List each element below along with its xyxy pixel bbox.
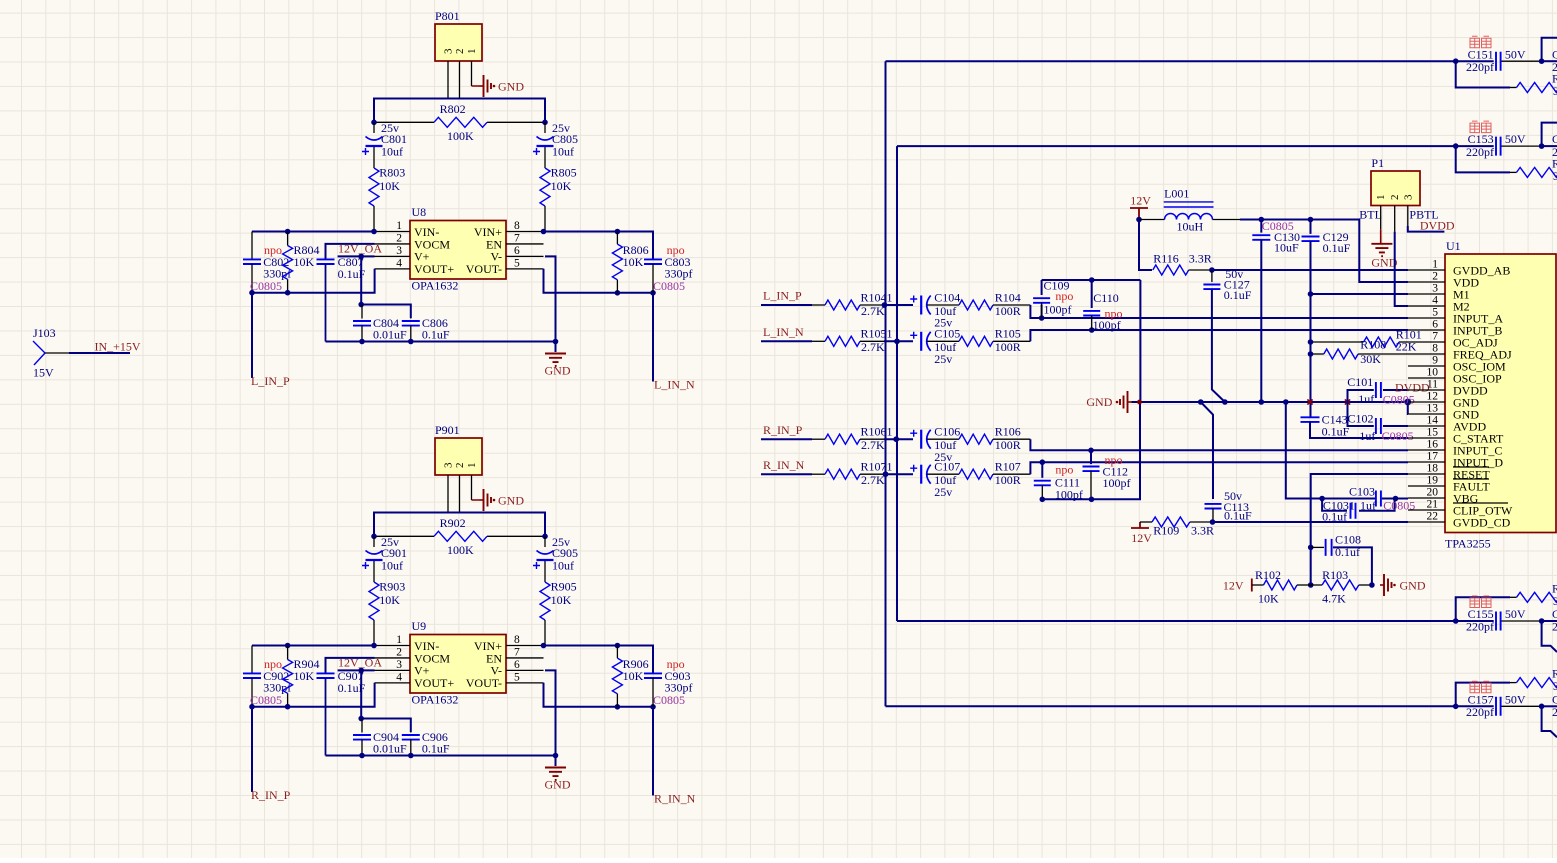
svg-text:VOUT-: VOUT- [466, 676, 502, 690]
svg-text:10K: 10K [623, 255, 644, 269]
capacitor C907 [326, 658, 375, 673]
U8 pin 3 [375, 255, 411, 257]
svg-text:2.7K: 2.7K [861, 473, 885, 487]
svg-text:C0805: C0805 [1382, 429, 1414, 443]
svg-text:6: 6 [1432, 319, 1438, 331]
svg-text:10K: 10K [379, 593, 400, 607]
wire pin1 row [252, 645, 375, 647]
power ground GND [480, 499, 484, 501]
op-amp U8 [410, 221, 506, 280]
resistor R806 [616, 232, 618, 245]
junction [893, 436, 899, 442]
svg-text:1uf: 1uf [1360, 498, 1376, 512]
junction [285, 229, 291, 235]
resistor R904 [287, 646, 289, 660]
wire VBG [1286, 402, 1375, 499]
wire [374, 513, 545, 537]
junction [1453, 704, 1459, 710]
junction [358, 302, 364, 308]
wire cap rail top [361, 719, 411, 733]
wire output net [886, 705, 1456, 707]
resistor R804 [287, 232, 289, 246]
svg-text:R1071: R1071 [861, 460, 893, 474]
U8 pin 4 [375, 268, 411, 270]
connector J103 [33, 341, 45, 365]
wire cap rail [1041, 305, 1043, 319]
resistor R106 [927, 438, 959, 440]
resistor R105 [927, 340, 959, 342]
svg-text:R105: R105 [995, 327, 1021, 341]
power 12V [1251, 579, 1253, 592]
svg-text:R_IN_P: R_IN_P [763, 423, 803, 437]
wire output net [897, 620, 1456, 622]
svg-text:VOUT-: VOUT- [466, 262, 502, 276]
svg-text:8: 8 [514, 634, 520, 646]
junction [285, 643, 291, 649]
connector P1 [1371, 171, 1420, 206]
junction [1088, 448, 1094, 454]
svg-text:R1051: R1051 [861, 327, 893, 341]
svg-text:2: 2 [1552, 620, 1557, 634]
svg-text:P901: P901 [435, 423, 460, 437]
svg-text:OPA1632: OPA1632 [412, 693, 459, 707]
svg-text:50V: 50V [1505, 607, 1526, 621]
svg-text:220pf: 220pf [1466, 620, 1494, 634]
U1 pin 16 INPUT_C [1408, 449, 1445, 451]
U8 pin 2 [375, 243, 411, 245]
overbar CLIP_OTW [1453, 502, 1508, 504]
capacitor C153 [1456, 145, 1494, 147]
film label [1470, 36, 1480, 48]
svg-text:12V: 12V [1130, 194, 1151, 208]
svg-text:3: 3 [443, 48, 455, 54]
capacitor C104 [910, 296, 917, 303]
svg-text:IN_+15V: IN_+15V [95, 340, 141, 354]
svg-text:C0805: C0805 [1383, 392, 1415, 406]
svg-text:R1061: R1061 [861, 425, 893, 439]
svg-text:14: 14 [1427, 415, 1439, 427]
junction [1209, 267, 1215, 273]
svg-text:3: 3 [396, 659, 402, 671]
wire [884, 473, 913, 475]
U9 pin 2 [375, 657, 411, 659]
svg-text:R1041: R1041 [861, 290, 893, 304]
svg-text:R905: R905 [551, 580, 577, 594]
svg-text:R_IN_P: R_IN_P [251, 788, 291, 802]
svg-text:5: 5 [514, 671, 520, 683]
svg-text:100K: 100K [447, 543, 474, 557]
junction [1539, 618, 1545, 624]
svg-text:5: 5 [514, 257, 520, 269]
svg-text:6: 6 [514, 659, 520, 671]
svg-text:R_IN_N: R_IN_N [654, 792, 696, 806]
svg-text:19: 19 [1427, 475, 1439, 487]
svg-text:1uf: 1uf [1359, 429, 1375, 443]
svg-text:GND: GND [545, 364, 571, 378]
wire VOUT- row [544, 683, 654, 707]
junction [358, 716, 364, 722]
junction [615, 643, 621, 649]
resistor R101 [1311, 341, 1364, 343]
junction [615, 704, 621, 710]
svg-text:R802: R802 [440, 102, 466, 116]
svg-text:GND: GND [1086, 395, 1112, 409]
U9 pin 5 [506, 682, 544, 684]
junction [1210, 519, 1216, 525]
wire net OUT_A vertical [885, 61, 887, 706]
svg-text:C0805: C0805 [653, 279, 685, 293]
svg-text:7: 7 [514, 232, 520, 244]
svg-text:100R: 100R [995, 438, 1021, 452]
wire to edge [1542, 60, 1557, 62]
wire GND rail [1132, 401, 1408, 403]
svg-text:1: 1 [396, 220, 402, 232]
wire C109/C110 rail [1042, 279, 1141, 281]
ground GND [545, 354, 566, 366]
U8 pin 6 [506, 255, 544, 257]
film label [1470, 596, 1480, 608]
P1 pin2 wire [1394, 206, 1396, 232]
U1 pin 19 FAULT [1408, 485, 1445, 487]
svg-text:8: 8 [514, 220, 520, 232]
junction [1453, 58, 1459, 64]
junction [359, 753, 365, 759]
svg-text:1: 1 [466, 49, 478, 55]
capacitor C105 [910, 332, 917, 339]
svg-text:10uf: 10uf [552, 145, 574, 159]
net 12V_OA [338, 255, 375, 257]
svg-text:0.01uF: 0.01uF [373, 742, 407, 756]
junction [1039, 315, 1045, 321]
wire GVDD_AB [1212, 269, 1408, 271]
svg-text:10: 10 [1427, 367, 1439, 379]
wire VOUT- row [544, 269, 654, 293]
svg-text:3: 3 [1553, 84, 1557, 98]
svg-text:L_IN_P: L_IN_P [251, 374, 290, 388]
svg-text:J103: J103 [33, 326, 56, 340]
svg-text:20: 20 [1427, 487, 1439, 499]
resistor R905 [540, 582, 550, 620]
resistor R1071 [812, 473, 825, 475]
U1 pin 14 AVDD [1408, 425, 1445, 427]
capacitor C108 [1326, 539, 1332, 556]
svg-text:GND: GND [1400, 578, 1426, 592]
svg-text:50V: 50V [1505, 47, 1526, 61]
svg-text:P801: P801 [435, 9, 460, 23]
wire output net [886, 60, 1456, 62]
svg-text:4: 4 [396, 671, 402, 683]
U1 pin 13 GND [1408, 413, 1445, 415]
svg-text:C103: C103 [1349, 484, 1375, 498]
P1 pin3 wire [1407, 206, 1409, 227]
wire V+ decouple [360, 670, 362, 718]
svg-text:1: 1 [466, 463, 478, 469]
resistor R906 [616, 646, 618, 659]
capacitor C902 [251, 646, 253, 674]
wire V- to gnd [545, 670, 556, 766]
capacitor C155 [1456, 620, 1494, 622]
op-amp U9 [410, 635, 506, 694]
junction [1453, 618, 1459, 624]
svg-text:R903: R903 [379, 580, 405, 594]
svg-text:15: 15 [1427, 427, 1439, 439]
svg-text:R803: R803 [379, 166, 405, 180]
svg-text:U8: U8 [412, 205, 427, 219]
svg-text:C102: C102 [1348, 411, 1374, 425]
U1 pin 8 FREQ_ADJ [1408, 353, 1445, 355]
U9 pin 1 [375, 645, 411, 647]
svg-text:10uf: 10uf [381, 145, 403, 159]
wire INPUT_D [1030, 462, 1408, 474]
wire pin8 row [544, 232, 654, 260]
resistor R108 [1311, 353, 1324, 355]
svg-text:3.3R: 3.3R [1191, 524, 1214, 538]
wire to edge [1542, 620, 1557, 622]
svg-text:U1: U1 [1446, 239, 1461, 253]
net R_IN_P wire [251, 707, 253, 792]
svg-text:C0805: C0805 [653, 693, 685, 707]
U1 pin 22 GVDD_CD [1408, 521, 1445, 523]
svg-text:C0805: C0805 [250, 279, 282, 293]
resistor R1051 [812, 340, 825, 342]
junction [1040, 459, 1046, 465]
svg-text:BTL: BTL [1359, 208, 1382, 222]
svg-text:P1: P1 [1371, 156, 1384, 170]
U1 pin 10 OSC_IOP [1408, 377, 1445, 379]
junction [1453, 143, 1459, 149]
svg-text:10K: 10K [551, 179, 572, 193]
svg-text:VOUT+: VOUT+ [414, 676, 454, 690]
svg-text:GND: GND [498, 80, 524, 94]
capacitor C807 [326, 244, 375, 259]
wire to edge [1542, 705, 1557, 707]
svg-text:0.1uf: 0.1uf [1335, 545, 1360, 559]
svg-text:25v: 25v [934, 485, 952, 499]
wire cap rail bottom [326, 341, 556, 343]
wire stub [1456, 597, 1510, 621]
svg-text:2.7K: 2.7K [861, 340, 885, 354]
P801 pin wires [447, 61, 449, 99]
wire GVDD_CD [1211, 521, 1408, 523]
junction [1369, 582, 1375, 588]
film label [1470, 681, 1480, 693]
svg-text:4.7K: 4.7K [1322, 592, 1346, 606]
resistor R805 [540, 168, 550, 206]
U1 pin 21 CLIP_OTW [1408, 509, 1445, 511]
svg-text:2.7K: 2.7K [861, 438, 885, 452]
svg-text:12: 12 [1427, 391, 1439, 403]
junction [894, 339, 900, 345]
overbar FAULT [1453, 478, 1489, 480]
junction [358, 254, 364, 260]
junction [249, 704, 255, 710]
svg-text:L_IN_P: L_IN_P [763, 289, 802, 303]
capacitor C102 [1376, 418, 1381, 434]
wire pin8 row [544, 646, 654, 674]
U1 pin 12 GND [1408, 401, 1445, 403]
svg-text:1: 1 [1375, 195, 1387, 201]
junction [1308, 545, 1314, 551]
wire INPUT_C [1030, 439, 1408, 450]
svg-text:11: 11 [1427, 379, 1438, 391]
no-ERC markers [1307, 399, 1312, 404]
svg-text:10uf: 10uf [381, 559, 403, 573]
svg-text:12V: 12V [1223, 578, 1244, 592]
svg-text:2: 2 [454, 463, 466, 469]
wire [884, 304, 913, 306]
resistor R1061 [812, 438, 825, 440]
svg-text:1: 1 [1432, 259, 1438, 271]
svg-text:R106: R106 [995, 425, 1021, 439]
capacitor C804 [361, 305, 363, 319]
IC U1 TPA3255 [1445, 254, 1556, 533]
capacitor C157 [1456, 705, 1494, 707]
svg-text:2: 2 [454, 49, 466, 55]
wire stub [1456, 683, 1510, 707]
P1 pin1 wire [1380, 206, 1382, 230]
capacitor C801 [373, 122, 375, 133]
U1 pin 3 M1 [1408, 293, 1445, 295]
resistor R116 [1153, 265, 1189, 275]
wire cap gnd rail [1042, 402, 1140, 499]
junction [1259, 217, 1265, 223]
capacitor C101 [1383, 389, 1408, 391]
svg-text:0.1uF: 0.1uF [422, 328, 450, 342]
svg-text:10uf: 10uf [552, 559, 574, 573]
capacitor C109 [1041, 280, 1043, 295]
svg-text:0.1uF: 0.1uF [1224, 509, 1252, 523]
svg-text:DVDD: DVDD [1420, 219, 1455, 233]
svg-text:1uf: 1uf [1358, 392, 1374, 406]
svg-text:GND: GND [545, 778, 571, 792]
svg-text:2: 2 [396, 646, 402, 658]
U1 pin 4 M2 [1408, 305, 1445, 307]
junction [882, 302, 888, 308]
wire pin1 row [252, 231, 375, 233]
svg-text:220pf: 220pf [1466, 60, 1494, 74]
wire rail down to gnd [1139, 280, 1141, 402]
svg-text:2: 2 [396, 232, 402, 244]
U1 pin 5 INPUT_A [1408, 317, 1445, 319]
svg-text:1: 1 [396, 634, 402, 646]
svg-text:DVDD: DVDD [1395, 380, 1430, 394]
capacitor C103 [1376, 491, 1381, 507]
film label [1470, 121, 1480, 133]
svg-text:0.1uF: 0.1uF [1322, 425, 1350, 439]
wire [374, 99, 545, 123]
capacitor C903 [644, 673, 662, 678]
svg-text:C105: C105 [934, 327, 960, 341]
svg-text:R805: R805 [551, 166, 577, 180]
junction [1089, 327, 1095, 333]
svg-text:10uF: 10uF [1274, 240, 1299, 254]
wire V+ decouple [360, 256, 362, 304]
svg-text:100R: 100R [995, 340, 1021, 354]
U1 pin 2 VDD [1408, 281, 1445, 283]
U9 pin 3 [375, 669, 411, 671]
svg-text:L_IN_N: L_IN_N [654, 378, 695, 392]
U1 pin 9 OSC_IOM [1408, 365, 1445, 367]
svg-text:R103: R103 [1322, 568, 1348, 582]
svg-text:8: 8 [1432, 343, 1438, 355]
junction [249, 290, 255, 296]
svg-text:U9: U9 [412, 619, 427, 633]
svg-text:GND: GND [498, 494, 524, 508]
capacitor C806 [410, 317, 412, 320]
wire [884, 438, 913, 440]
U1 pin 11 DVDD [1408, 389, 1445, 391]
svg-text:18: 18 [1427, 463, 1439, 475]
svg-text:R902: R902 [440, 516, 466, 530]
U1 pin 15 C_START [1408, 437, 1445, 439]
power ground GND [1380, 584, 1384, 586]
junction input taps [882, 302, 888, 308]
inductor L001 [1139, 219, 1165, 221]
svg-text:3: 3 [396, 245, 402, 257]
capacitor C901 [373, 536, 375, 547]
svg-text:12V: 12V [1131, 531, 1152, 545]
svg-text:2: 2 [1552, 705, 1557, 719]
U8 pin 8 [506, 231, 544, 233]
U1 pin 17 INPUT_D [1408, 461, 1445, 463]
svg-text:TPA3255: TPA3255 [1445, 537, 1491, 551]
svg-text:0.1uF: 0.1uF [1224, 288, 1252, 302]
ground GND [1371, 244, 1392, 256]
resistor R102 [1252, 584, 1264, 586]
connector P901 [435, 438, 482, 475]
U8 pin 1 [375, 231, 411, 233]
capacitor C112 [1090, 450, 1092, 464]
svg-text:C107: C107 [934, 460, 960, 474]
svg-text:50V: 50V [1505, 692, 1526, 706]
U8 pin 5 [506, 268, 544, 270]
svg-text:R116: R116 [1153, 252, 1179, 266]
svg-text:R104: R104 [995, 290, 1021, 304]
wire stub [1456, 146, 1510, 172]
wire IN_+15V [45, 352, 69, 354]
svg-text:10uH: 10uH [1177, 220, 1204, 234]
wire corner [1542, 123, 1557, 147]
net 12V_OA [338, 669, 375, 671]
wire to edge [1542, 145, 1557, 147]
svg-text:30K: 30K [1360, 352, 1381, 366]
svg-text:5: 5 [1432, 307, 1438, 319]
svg-text:C110: C110 [1093, 291, 1119, 305]
resistor R803 [369, 168, 379, 206]
svg-text:3.3R: 3.3R [1189, 252, 1212, 266]
svg-text:3: 3 [1553, 679, 1557, 693]
svg-text:9: 9 [1432, 355, 1438, 367]
svg-text:R108: R108 [1360, 338, 1386, 352]
svg-text:4: 4 [396, 257, 402, 269]
svg-text:3: 3 [1553, 594, 1557, 608]
wire 12V rail [1213, 219, 1241, 221]
svg-text:C104: C104 [934, 290, 960, 304]
capacitor C130 [1260, 220, 1262, 233]
wire RESET [1311, 474, 1408, 585]
svg-text:3: 3 [443, 462, 455, 468]
P901 pin wires [447, 475, 449, 513]
wire cap rail top [361, 305, 411, 319]
svg-text:100K: 100K [447, 129, 474, 143]
junction [1539, 58, 1545, 64]
svg-text:7: 7 [1432, 331, 1438, 343]
svg-text:7: 7 [514, 646, 520, 658]
svg-text:100pf: 100pf [1044, 303, 1072, 317]
junction [1319, 496, 1325, 502]
svg-text:C108: C108 [1335, 532, 1361, 546]
junction [1136, 217, 1142, 223]
